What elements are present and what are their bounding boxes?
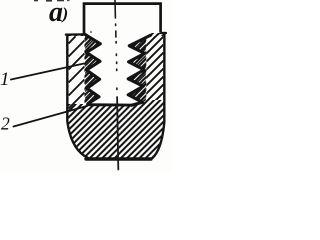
- svg-text:а: а: [49, 0, 63, 28]
- svg-text:2: 2: [1, 114, 10, 134]
- svg-text:): ): [61, 4, 69, 23]
- svg-text:1: 1: [0, 69, 10, 90]
